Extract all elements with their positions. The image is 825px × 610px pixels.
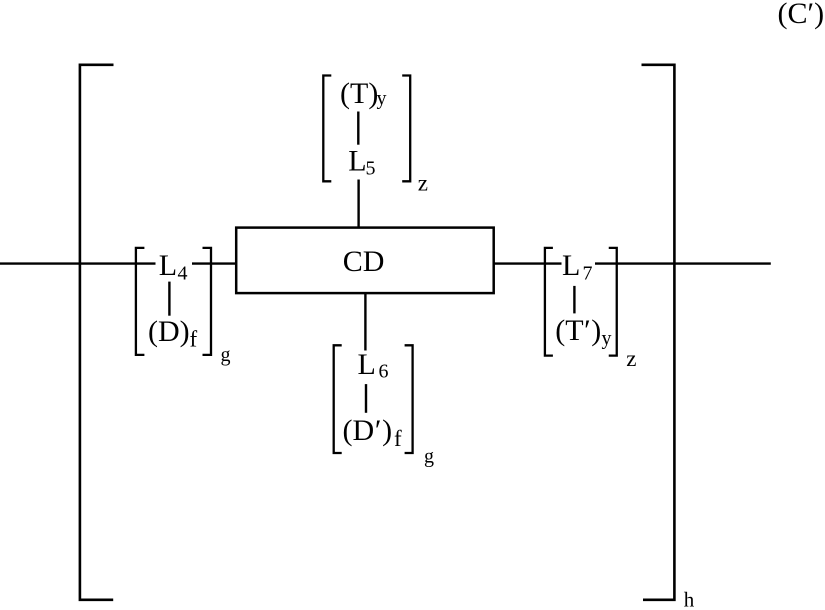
left group right bracket (203, 248, 212, 355)
svg-text:(T): (T) (340, 77, 378, 110)
svg-text:(D′): (D′) (343, 414, 393, 447)
CD box (236, 228, 494, 294)
svg-text:f: f (190, 327, 198, 352)
svg-text:y: y (377, 87, 387, 109)
right group left bracket (545, 248, 553, 356)
top group left bracket (323, 76, 331, 182)
svg-text:L: L (159, 249, 177, 282)
outer right bracket (642, 65, 675, 600)
top group right bracket (402, 76, 410, 182)
svg-text:f: f (394, 426, 402, 451)
svg-text:(D): (D) (148, 315, 190, 348)
svg-text:6: 6 (379, 361, 389, 383)
wire L5 to CD box (357, 180, 359, 228)
wire CD box to L6 (364, 293, 366, 350)
svg-text:g: g (424, 445, 434, 467)
svg-text:(C′): (C′) (778, 0, 825, 30)
left group left bracket (136, 248, 145, 355)
svg-text:CD: CD (343, 245, 385, 278)
svg-text:L: L (358, 348, 376, 381)
svg-text:4: 4 (178, 263, 188, 285)
svg-text:z: z (418, 171, 428, 196)
wire backbone segment left edge to L4 (0, 262, 156, 264)
svg-text:y: y (602, 328, 612, 350)
wire backbone segment L4 to CD box (192, 262, 237, 264)
svg-text:5: 5 (366, 158, 376, 180)
svg-text:(T′): (T′) (555, 314, 601, 347)
svg-text:L: L (562, 249, 580, 282)
wire L6 to (D') (365, 384, 367, 413)
svg-text:z: z (626, 346, 636, 371)
wire L4 to (D) (168, 282, 170, 316)
bottom group left bracket (334, 345, 342, 453)
wire backbone segment CD box to L7 (494, 262, 562, 264)
right group right bracket (609, 248, 617, 356)
svg-text:g: g (221, 344, 231, 366)
svg-text:7: 7 (583, 262, 593, 284)
svg-text:h: h (684, 588, 695, 610)
svg-text:L: L (348, 145, 366, 178)
wire backbone segment L7 to right end (595, 262, 771, 264)
outer left bracket (80, 65, 114, 600)
wire L7 to (T') (573, 286, 575, 314)
bottom group right bracket (405, 345, 413, 453)
wire (T) to L5 (357, 112, 359, 145)
